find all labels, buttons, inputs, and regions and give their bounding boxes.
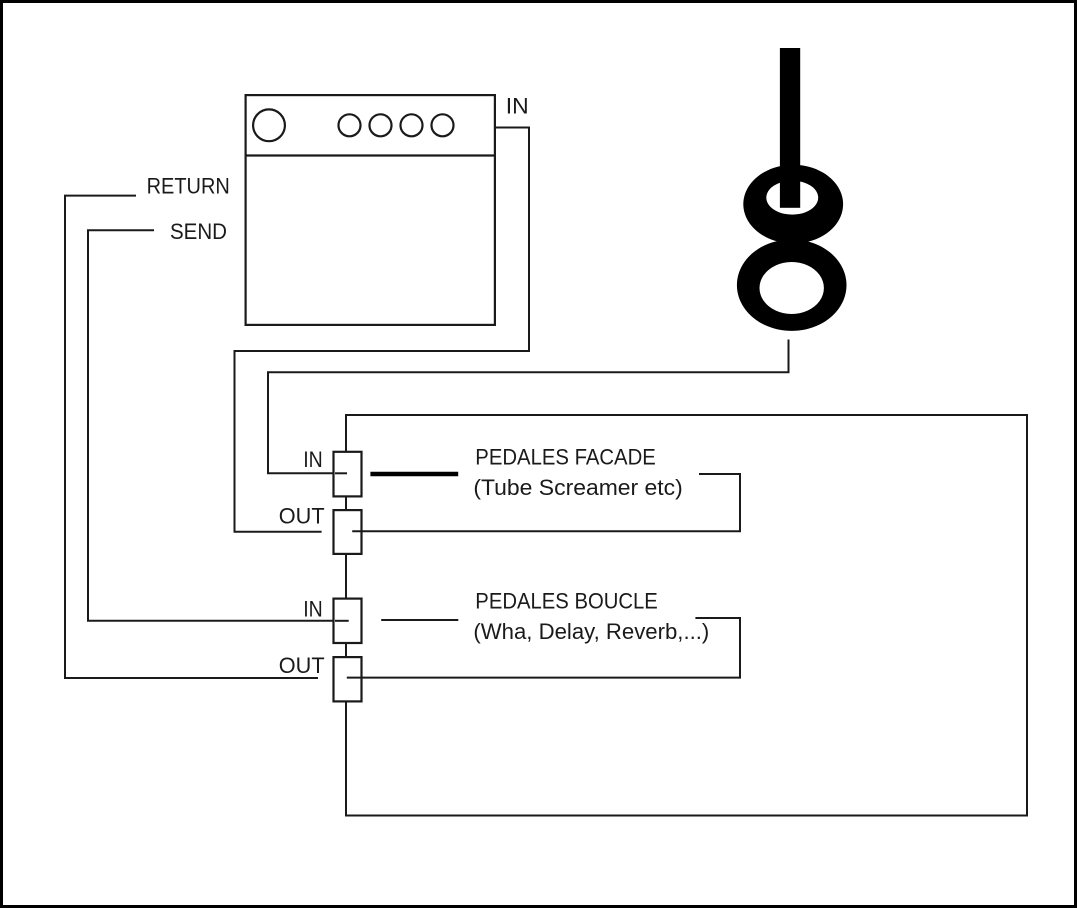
pedalboard big box xyxy=(346,415,1027,816)
wire: SEND to boucle IN jack xyxy=(88,230,349,621)
knob 3 xyxy=(401,114,423,136)
svg-text:IN: IN xyxy=(303,596,323,621)
knob 1 xyxy=(339,114,361,136)
svg-text:SEND: SEND xyxy=(170,219,227,244)
amp box (amplifier head) xyxy=(246,95,495,325)
knob 2 xyxy=(370,114,392,136)
svg-text:OUT: OUT xyxy=(279,653,325,678)
wire: thick link facade IN to pedals xyxy=(370,472,458,477)
amp panel divider xyxy=(245,154,497,156)
svg-text:PEDALES FACADE: PEDALES FACADE xyxy=(475,444,656,469)
guitar body (figure-8) top bout xyxy=(743,165,843,244)
svg-text:OUT: OUT xyxy=(279,504,325,529)
jack IN (pedales boucle) xyxy=(334,599,362,643)
wire: RETURN to boucle OUT jack xyxy=(65,196,318,678)
svg-text:(Wha, Delay, Reverb,...): (Wha, Delay, Reverb,...) xyxy=(473,619,709,644)
jack IN (pedales facade) xyxy=(334,452,362,497)
amp speaker/input knob (large circle) xyxy=(253,109,285,141)
wire: plug into boucle IN jack xyxy=(335,620,349,622)
jack OUT (pedales facade) xyxy=(334,510,362,554)
wire: thin link boucle IN to pedals xyxy=(381,619,458,621)
wire: amp IN to facade OUT jack xyxy=(235,128,530,532)
svg-text:(Tube Screamer etc): (Tube Screamer etc) xyxy=(473,475,682,500)
guitar neck xyxy=(780,48,800,208)
wire: facade pedals loop back to OUT jack xyxy=(352,474,740,531)
knob 4 xyxy=(432,114,454,136)
wire: plug into facade IN jack xyxy=(335,472,347,474)
svg-text:IN: IN xyxy=(303,447,323,472)
guitar body (figure-8) bottom bout xyxy=(737,239,847,331)
wire: guitar to facade IN jack xyxy=(268,340,789,474)
svg-text:IN: IN xyxy=(506,94,529,119)
jack OUT (pedales boucle) xyxy=(334,657,362,701)
svg-text:PEDALES BOUCLE: PEDALES BOUCLE xyxy=(475,588,658,613)
svg-text:RETURN: RETURN xyxy=(147,174,230,199)
wire: boucle pedals loop back to OUT jack xyxy=(347,618,740,678)
